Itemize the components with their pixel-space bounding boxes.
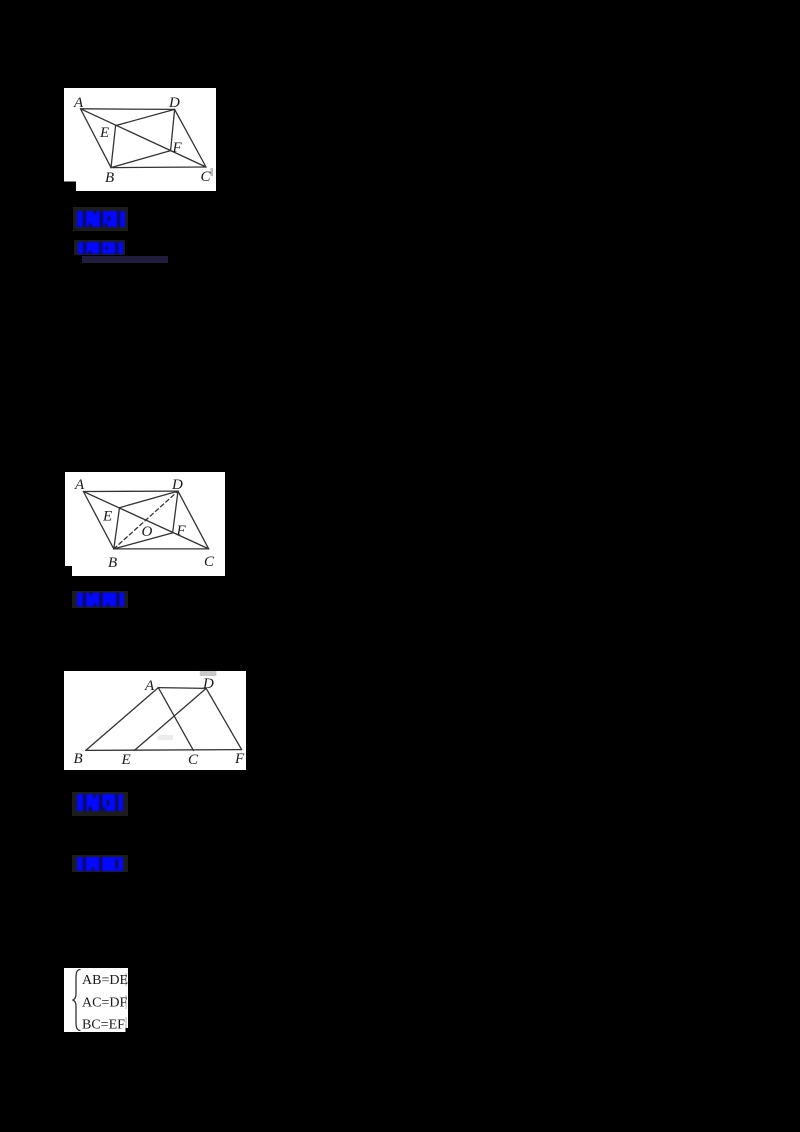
- figure image 2: parallelogram with centre O and dashed BD: [65, 472, 225, 576]
- svg-text:F: F: [176, 523, 187, 539]
- label 【点评】 #3: [72, 591, 128, 608]
- svg-text:A: A: [74, 477, 85, 493]
- wire EB: [114, 508, 120, 549]
- wire AB: [86, 688, 159, 751]
- wire side BC: [111, 166, 206, 169]
- svg-text:AB=DE: AB=DE: [82, 973, 128, 988]
- wire diagonal AC: [83, 492, 208, 549]
- faint scan strips right edge: [125, 973, 126, 1030]
- gray tick right of C: [211, 168, 214, 176]
- svg-text:B: B: [74, 751, 83, 767]
- wire diagonal BD dashed: [114, 491, 178, 549]
- wire EB: [111, 126, 116, 168]
- notch bottom-left: [64, 182, 76, 192]
- svg-text:C: C: [204, 554, 215, 570]
- wire side BC: [114, 548, 209, 550]
- notch bottom-left: [65, 566, 72, 576]
- svg-text:A: A: [73, 95, 84, 111]
- wire side AB: [83, 492, 113, 549]
- svg-text:D: D: [168, 95, 180, 111]
- svg-text:BC=EF: BC=EF: [82, 1018, 125, 1032]
- wire AC: [158, 688, 193, 751]
- equation system block: [64, 968, 128, 1032]
- label 【解答】 #5: [72, 855, 128, 872]
- svg-text:AC=DF: AC=DF: [82, 996, 127, 1011]
- wire base BF: [86, 749, 242, 752]
- svg-text:E: E: [102, 509, 112, 525]
- figure image 3: triangles ABC and DEF on line BF: [64, 671, 246, 770]
- wire DF: [206, 688, 241, 749]
- wire FD: [173, 491, 178, 533]
- svg-text:D: D: [202, 676, 214, 692]
- figure image 1: parallelogram ABCD with E,F on diagonal AC: [64, 88, 216, 191]
- svg-text:O: O: [142, 524, 153, 540]
- wire DE: [134, 688, 206, 750]
- wire BF: [114, 533, 173, 549]
- wire side DC: [175, 109, 206, 167]
- svg-text:A: A: [144, 678, 155, 694]
- wire side AB: [81, 109, 112, 168]
- svg-text:E: E: [121, 752, 131, 768]
- svg-text:B: B: [108, 555, 117, 571]
- svg-text:C: C: [188, 752, 199, 768]
- wire ED: [116, 109, 175, 125]
- label 【解答】 #2: [74, 240, 125, 255]
- svg-text:F: F: [172, 140, 183, 156]
- faint smudge centre: [158, 735, 174, 740]
- svg-text:C: C: [201, 169, 212, 185]
- notch bottom-right: [126, 1028, 129, 1032]
- wire diagonal AC: [81, 109, 207, 167]
- svg-text:E: E: [99, 125, 109, 141]
- svg-text:B: B: [105, 170, 114, 186]
- brace {: [73, 970, 81, 1031]
- wire ED: [120, 491, 179, 508]
- wire side AD: [83, 490, 178, 492]
- wire AD: [158, 687, 206, 690]
- svg-text:D: D: [171, 477, 183, 493]
- wire BF: [111, 151, 171, 168]
- wire side AD: [81, 108, 175, 111]
- label 【分析】 #1: [73, 207, 128, 231]
- wire FD: [171, 109, 175, 150]
- label 【分析】 #4: [72, 792, 128, 816]
- gray smudge above D: [200, 671, 217, 676]
- wire side DC: [178, 491, 209, 549]
- svg-text:F: F: [234, 751, 245, 767]
- navy highlighted text bar: [82, 256, 168, 263]
